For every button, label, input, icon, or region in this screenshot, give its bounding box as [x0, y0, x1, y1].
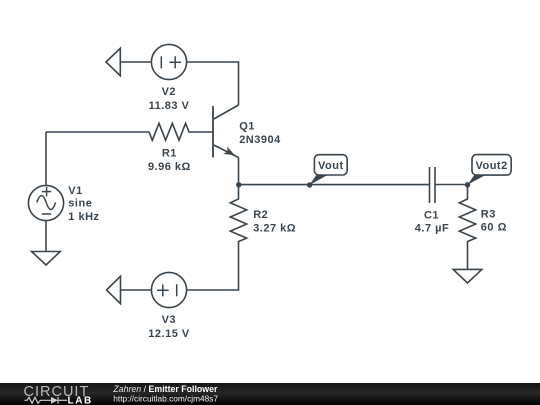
- svg-text:sine: sine: [68, 198, 92, 210]
- svg-text:11.83 V: 11.83 V: [149, 100, 190, 112]
- svg-text:2N3904: 2N3904: [239, 134, 281, 146]
- svg-text:C1: C1: [424, 209, 439, 221]
- svg-text:9.96 kΩ: 9.96 kΩ: [148, 161, 191, 173]
- svg-text:Vout2: Vout2: [475, 160, 507, 172]
- svg-text:R1: R1: [162, 148, 177, 160]
- svg-text:Vout: Vout: [318, 160, 344, 172]
- svg-text:LAB: LAB: [68, 395, 93, 405]
- svg-text:Zahren / Emitter Follower: Zahren / Emitter Follower: [112, 384, 218, 394]
- svg-text:V1: V1: [68, 185, 82, 197]
- svg-text:3.27 kΩ: 3.27 kΩ: [253, 222, 296, 234]
- svg-text:V3: V3: [162, 314, 176, 326]
- svg-text:R3: R3: [481, 208, 496, 220]
- svg-text:http://circuitlab.com/cjm48s7: http://circuitlab.com/cjm48s7: [113, 393, 218, 403]
- svg-text:4.7 µF: 4.7 µF: [415, 222, 449, 234]
- svg-text:1 kHz: 1 kHz: [68, 211, 99, 223]
- svg-text:V2: V2: [162, 86, 176, 98]
- svg-text:Q1: Q1: [239, 120, 255, 132]
- svg-text:12.15 V: 12.15 V: [148, 328, 190, 340]
- svg-text:60 Ω: 60 Ω: [481, 221, 507, 233]
- svg-text:R2: R2: [253, 209, 268, 221]
